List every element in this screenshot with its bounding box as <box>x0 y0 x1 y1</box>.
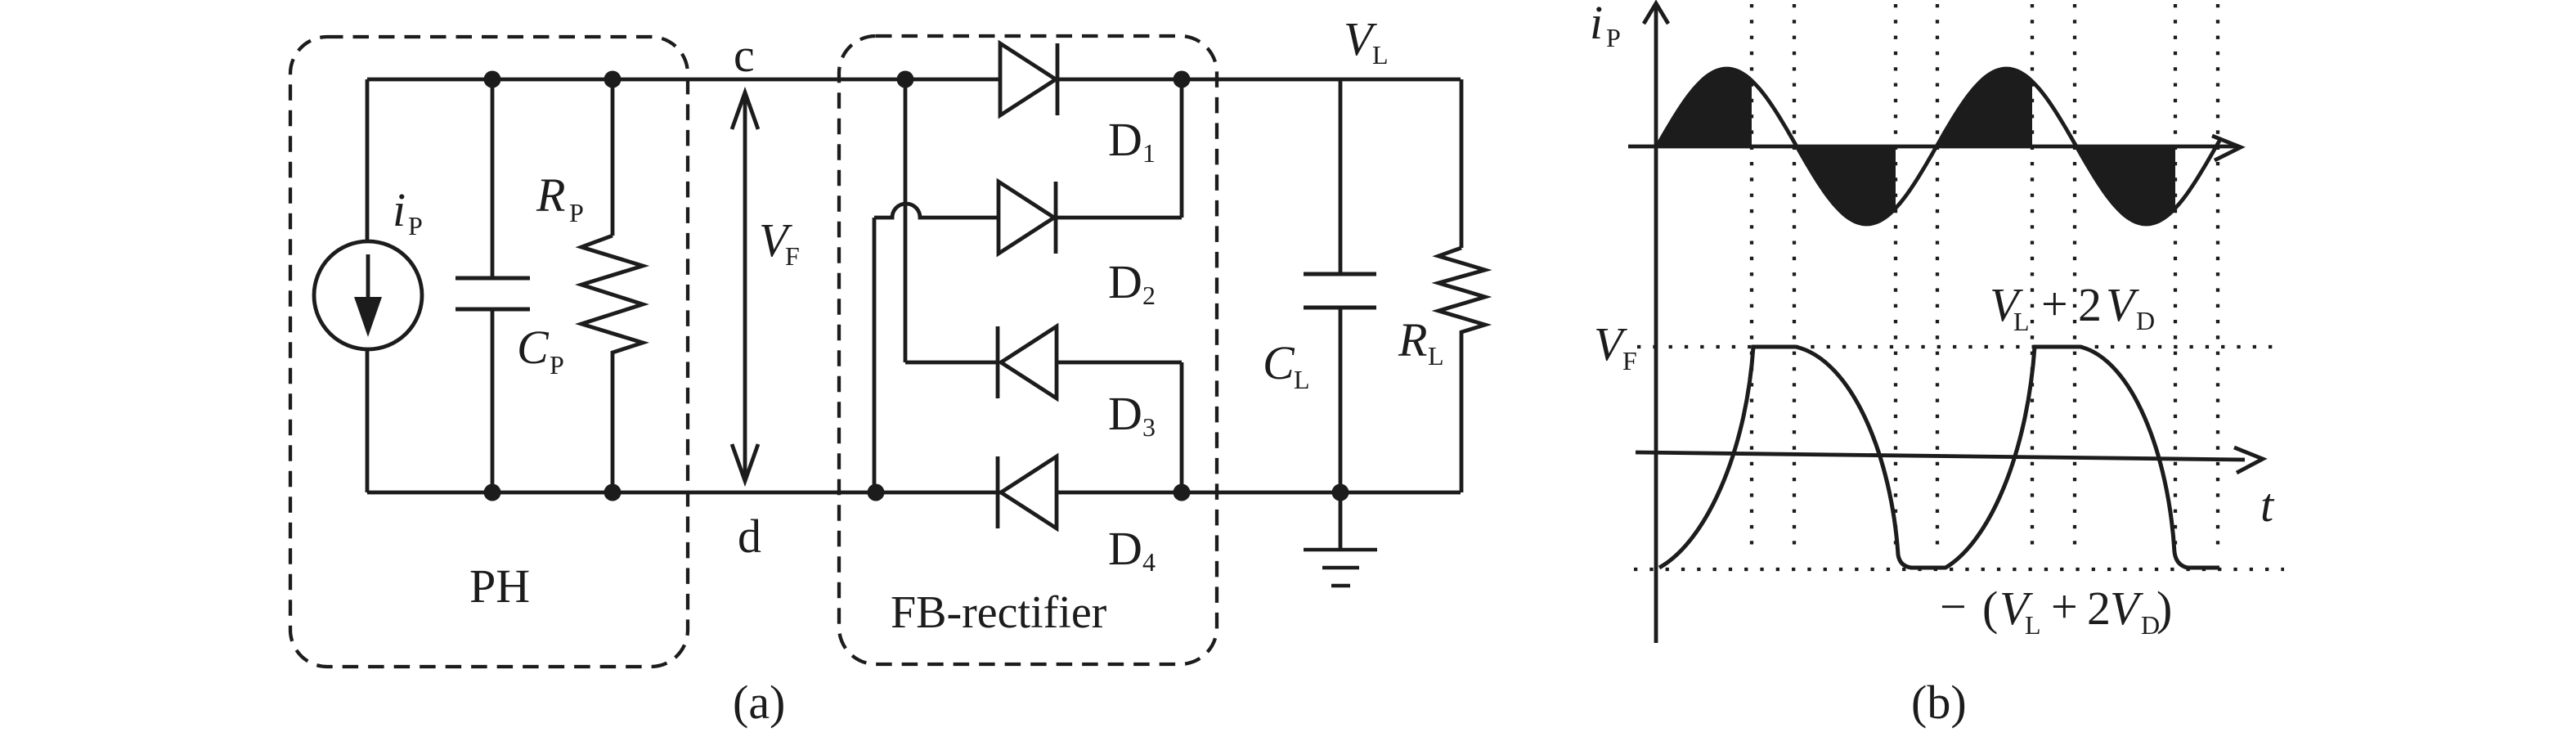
svg-text:P: P <box>569 198 584 227</box>
svg-text:c: c <box>734 29 755 82</box>
svg-text:+: + <box>2041 277 2068 330</box>
svg-text:d: d <box>738 510 761 563</box>
svg-text:F: F <box>1622 346 1637 375</box>
svg-text:P: P <box>1606 23 1621 52</box>
svg-text:t: t <box>2260 479 2275 532</box>
svg-text:2: 2 <box>2078 278 2102 331</box>
svg-text:(a): (a) <box>733 676 785 729</box>
svg-text:D: D <box>1108 387 1142 440</box>
svg-text:C: C <box>1263 336 1295 389</box>
svg-text:(b): (b) <box>1911 676 1967 729</box>
svg-text:L: L <box>2013 307 2030 336</box>
svg-text:D: D <box>1108 522 1142 575</box>
svg-text:R: R <box>1398 313 1427 366</box>
svg-text:L: L <box>1372 40 1389 70</box>
svg-text:D: D <box>2136 306 2155 335</box>
svg-text:3: 3 <box>1142 412 1156 442</box>
svg-text:+: + <box>2051 580 2078 633</box>
svg-text:i: i <box>393 183 406 236</box>
svg-text:L: L <box>1428 341 1444 371</box>
svg-text:C: C <box>517 321 550 374</box>
svg-text:1: 1 <box>1142 138 1156 168</box>
svg-text:L: L <box>1294 365 1310 394</box>
svg-text:P: P <box>408 211 423 240</box>
svg-text:L: L <box>2025 610 2041 640</box>
svg-text:4: 4 <box>1142 547 1156 577</box>
svg-text:D: D <box>1108 255 1142 308</box>
svg-text:P: P <box>550 350 564 380</box>
svg-text:): ) <box>2156 582 2172 635</box>
svg-text:i: i <box>1590 0 1603 49</box>
svg-text:2: 2 <box>2087 582 2111 635</box>
svg-text:2: 2 <box>1142 281 1156 310</box>
svg-text:−: − <box>1940 580 1967 633</box>
svg-text:PH: PH <box>469 559 530 613</box>
svg-text:F: F <box>785 241 800 271</box>
svg-text:(: ( <box>1982 582 1998 635</box>
svg-text:D: D <box>1108 113 1142 166</box>
svg-text:FB-rectifier: FB-rectifier <box>891 587 1107 638</box>
svg-text:R: R <box>536 169 565 222</box>
